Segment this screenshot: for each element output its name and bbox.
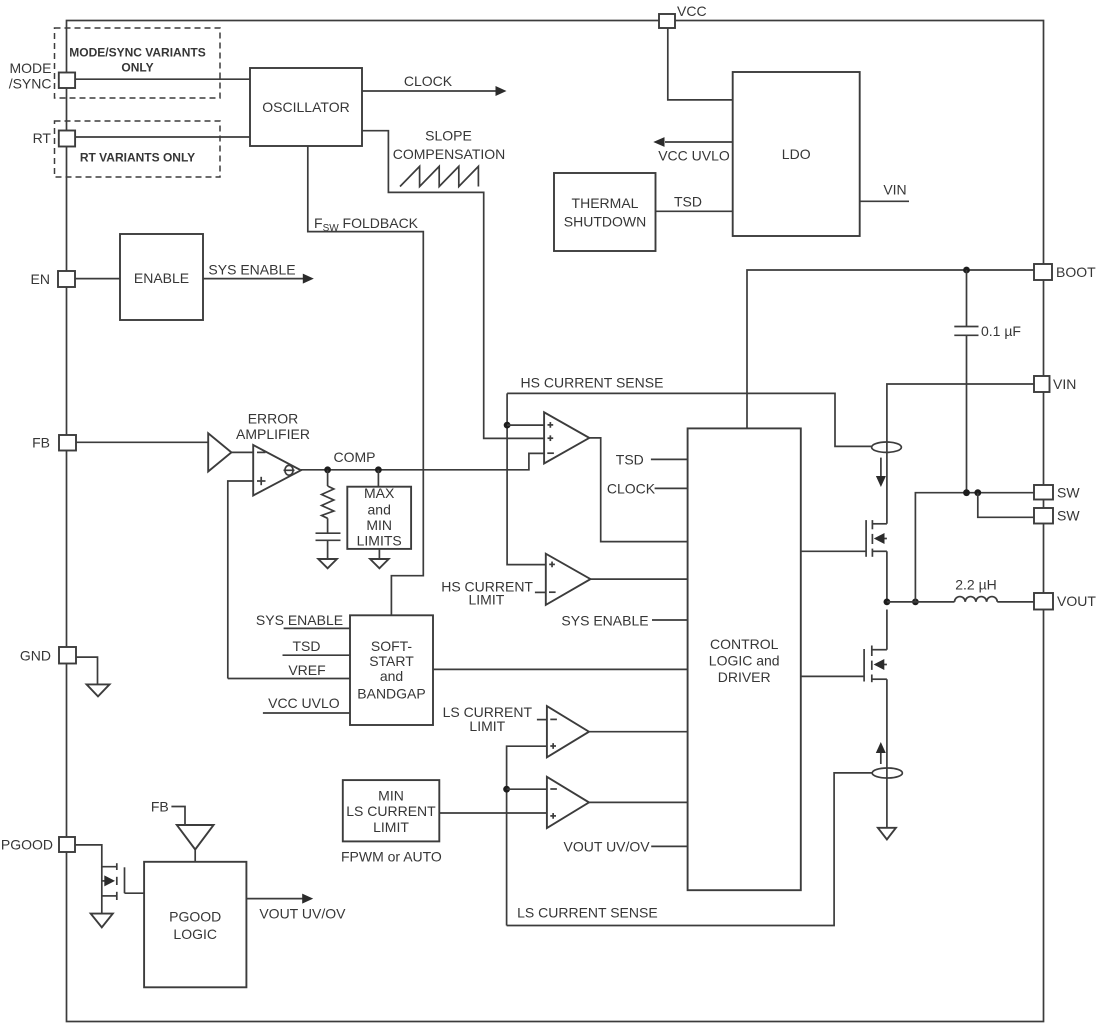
svg-text:VCC UVLO: VCC UVLO (268, 695, 340, 711)
svg-text:VCC: VCC (677, 3, 707, 19)
svg-text:LIMIT: LIMIT (469, 592, 505, 608)
svg-text:SW: SW (1057, 508, 1080, 524)
svg-text:2.2 µH: 2.2 µH (955, 577, 997, 593)
svg-text:LOGIC and: LOGIC and (709, 653, 780, 669)
svg-text:AMPLIFIER: AMPLIFIER (236, 426, 310, 442)
svg-text:RT: RT (33, 130, 52, 146)
svg-text:TSD: TSD (674, 194, 702, 210)
svg-text:ONLY: ONLY (121, 61, 153, 75)
svg-text:BANDGAP: BANDGAP (357, 685, 425, 701)
svg-text:MODE: MODE (10, 60, 52, 76)
svg-text:LOGIC: LOGIC (173, 926, 217, 942)
svg-text:LIMIT: LIMIT (469, 718, 505, 734)
svg-text:FB: FB (32, 435, 50, 451)
svg-text:ERROR: ERROR (248, 411, 299, 427)
svg-text:TSD: TSD (293, 638, 321, 654)
svg-text:EN: EN (31, 271, 50, 287)
svg-text:START: START (369, 653, 414, 669)
svg-text:BOOT: BOOT (1056, 264, 1096, 280)
svg-text:0.1 µF: 0.1 µF (981, 323, 1021, 339)
svg-text:/SYNC: /SYNC (9, 76, 52, 92)
svg-text:and: and (368, 502, 391, 518)
svg-text:MAX: MAX (364, 485, 395, 501)
svg-text:ENABLE: ENABLE (134, 270, 189, 286)
svg-text:SW: SW (1057, 485, 1080, 501)
svg-text:COMPENSATION: COMPENSATION (393, 146, 506, 162)
svg-text:CONTROL: CONTROL (710, 636, 779, 652)
svg-text:COMP: COMP (334, 449, 376, 465)
svg-text:CLOCK: CLOCK (404, 73, 453, 89)
svg-text:SYS ENABLE: SYS ENABLE (256, 612, 343, 628)
svg-text:OSCILLATOR: OSCILLATOR (262, 99, 349, 115)
svg-text:DRIVER: DRIVER (718, 669, 771, 685)
svg-text:MIN: MIN (366, 517, 392, 533)
svg-text:SYS ENABLE: SYS ENABLE (561, 612, 648, 628)
svg-text:PGOOD: PGOOD (1, 837, 53, 853)
svg-text:VOUT UV/OV: VOUT UV/OV (259, 906, 346, 922)
svg-text:SHUTDOWN: SHUTDOWN (564, 214, 646, 230)
svg-text:SOFT-: SOFT- (371, 638, 413, 654)
svg-text:MIN: MIN (378, 787, 404, 803)
svg-text:LS CURRENT SENSE: LS CURRENT SENSE (517, 905, 658, 921)
svg-text:MODE/SYNC VARIANTS: MODE/SYNC VARIANTS (69, 46, 205, 60)
svg-text:VIN: VIN (1053, 376, 1076, 392)
svg-text:RT VARIANTS ONLY: RT VARIANTS ONLY (80, 151, 195, 165)
svg-text:VREF: VREF (288, 662, 325, 678)
svg-text:VIN: VIN (883, 182, 906, 198)
svg-text:LIMIT: LIMIT (373, 819, 409, 835)
svg-text:LIMITS: LIMITS (357, 533, 402, 549)
svg-text:VOUT UV/OV: VOUT UV/OV (564, 838, 651, 854)
svg-text:VOUT: VOUT (1057, 593, 1096, 609)
svg-text:SYS ENABLE: SYS ENABLE (208, 262, 295, 278)
svg-text:FB: FB (151, 798, 169, 814)
svg-text:VCC UVLO: VCC UVLO (658, 148, 730, 164)
svg-text:FPWM or AUTO: FPWM or AUTO (341, 849, 442, 865)
svg-text:LDO: LDO (782, 146, 811, 162)
svg-text:HS CURRENT SENSE: HS CURRENT SENSE (521, 374, 664, 390)
svg-text:CLOCK: CLOCK (607, 481, 656, 497)
svg-text:GND: GND (20, 648, 51, 664)
svg-text:THERMAL: THERMAL (572, 195, 639, 211)
svg-text:LS CURRENT: LS CURRENT (346, 803, 436, 819)
svg-text:PGOOD: PGOOD (169, 908, 221, 924)
svg-text:and: and (380, 668, 403, 684)
svg-text:TSD: TSD (616, 451, 644, 467)
svg-text:SLOPE: SLOPE (425, 128, 472, 144)
